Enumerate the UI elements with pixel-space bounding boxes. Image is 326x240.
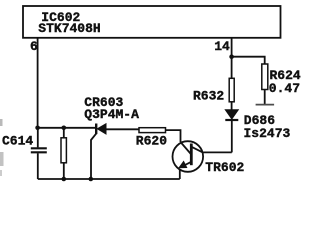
svg-text:TR602: TR602 xyxy=(205,160,244,175)
wire node A horizontal xyxy=(38,127,96,129)
resistor R (unlabeled) vertical xyxy=(61,128,66,179)
label CR603 xyxy=(84,95,123,110)
label D686 xyxy=(244,113,275,128)
node B junction dot xyxy=(229,54,234,59)
svg-text:0.47: 0.47 xyxy=(269,81,300,96)
label Q3P4M-A xyxy=(84,107,139,122)
resistor R632 xyxy=(229,57,234,110)
label STK7408H xyxy=(38,21,100,36)
junction dot resistor top xyxy=(62,126,67,131)
wire node B to R624 xyxy=(232,57,265,64)
junction dot gate-rail xyxy=(89,177,94,182)
node A junction dot xyxy=(35,126,40,131)
wire collector horizontal xyxy=(203,151,232,153)
svg-text:Q3P4M-A: Q3P4M-A xyxy=(84,107,139,122)
svg-text:R632: R632 xyxy=(193,89,224,104)
pin 14 label xyxy=(214,39,230,54)
pin 6 label xyxy=(30,39,38,54)
label R620 xyxy=(136,133,167,148)
svg-text:14: 14 xyxy=(214,39,230,54)
label IC602 xyxy=(41,10,80,25)
IC IC602 STK7408H box xyxy=(23,6,281,38)
resistor R620 xyxy=(139,128,181,142)
scan smudge left edge xyxy=(0,119,4,176)
capacitor C614 xyxy=(31,128,47,179)
svg-text:STK7408H: STK7408H xyxy=(38,21,100,36)
label Is2473 xyxy=(244,126,291,141)
svg-text:R620: R620 xyxy=(136,133,167,148)
label R632 xyxy=(193,89,224,104)
thyristor CR603 xyxy=(91,124,139,180)
diode D686 xyxy=(225,110,238,153)
svg-text:Is2473: Is2473 xyxy=(244,126,291,141)
wire pin 6 vertical xyxy=(37,38,39,128)
svg-text:C614: C614 xyxy=(2,133,33,148)
label 0.47 xyxy=(269,81,300,96)
label R624 xyxy=(270,68,301,83)
wire pin 14 vertical xyxy=(231,38,233,57)
wire ground rail xyxy=(38,178,180,180)
transistor TR602 xyxy=(173,141,204,179)
ground xyxy=(256,104,275,106)
label C614 xyxy=(2,133,33,148)
label TR602 xyxy=(205,160,244,175)
resistor R624 xyxy=(262,64,268,104)
junction dot resistor bottom xyxy=(62,177,67,182)
